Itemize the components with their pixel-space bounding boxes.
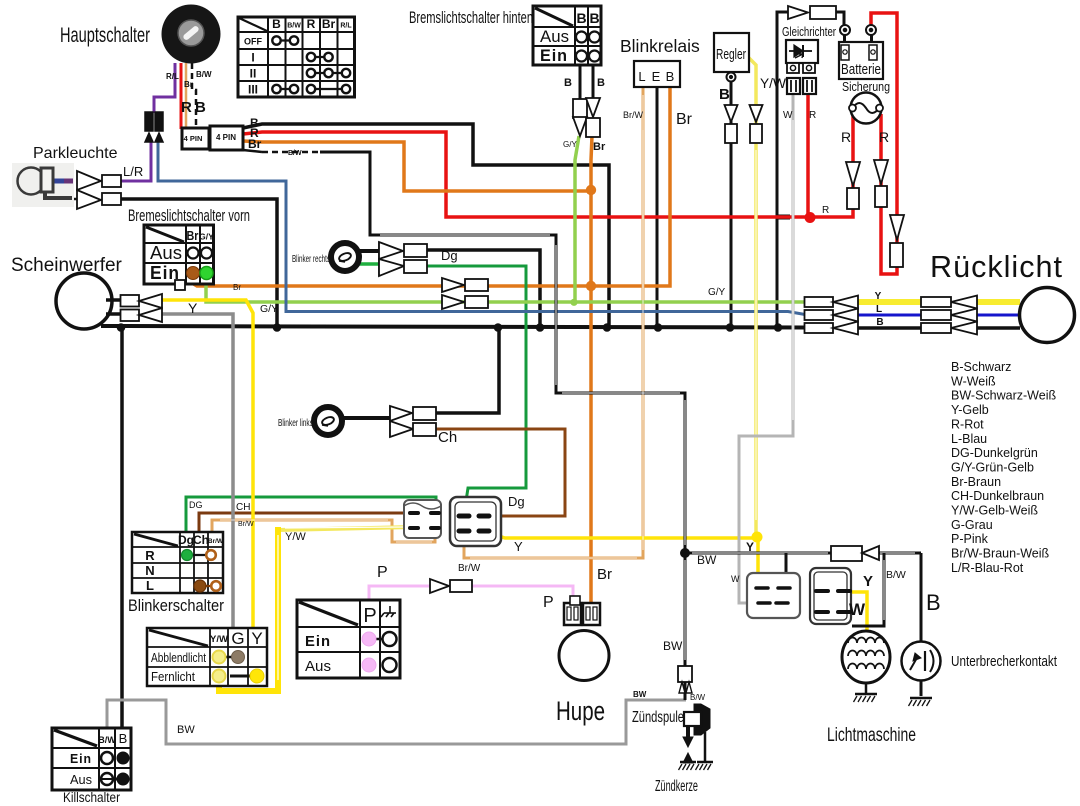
svg-text:Br-Braun: Br-Braun (951, 475, 1001, 489)
svg-text:B/W: B/W (690, 693, 706, 702)
svg-text:B/W: B/W (886, 569, 906, 581)
svg-text:B/W: B/W (288, 150, 302, 157)
svg-text:Y: Y (863, 573, 873, 590)
svg-text:R/L: R/L (340, 23, 352, 30)
svg-text:Y: Y (514, 539, 523, 554)
svg-text:L/R-Blau-Rot: L/R-Blau-Rot (951, 561, 1024, 575)
svg-text:R: R (145, 548, 155, 563)
svg-text:Y/W: Y/W (210, 634, 228, 645)
svg-text:Fernlicht: Fernlicht (151, 669, 195, 684)
svg-text:BW: BW (663, 639, 683, 653)
svg-text:G/Y-Grün-Gelb: G/Y-Grün-Gelb (951, 460, 1034, 474)
svg-text:Dg: Dg (508, 494, 525, 509)
svg-text:Dg: Dg (441, 248, 458, 263)
svg-text:Br: Br (322, 17, 336, 31)
svg-text:R: R (809, 110, 816, 121)
svg-text:Y: Y (188, 300, 198, 316)
svg-text:Br/W: Br/W (208, 538, 224, 545)
svg-text:CH-Dunkelbraun: CH-Dunkelbraun (951, 489, 1044, 503)
svg-text:Gleichrichter: Gleichrichter (782, 24, 836, 39)
svg-text:Br: Br (248, 137, 262, 151)
svg-text:Hupe: Hupe (556, 696, 605, 726)
svg-text:Blinkrelais: Blinkrelais (620, 36, 700, 56)
svg-text:L/R: L/R (123, 164, 143, 179)
svg-text:R: R (841, 129, 851, 145)
svg-text:B: B (719, 86, 730, 103)
svg-text:Br/W: Br/W (623, 110, 644, 120)
svg-text:Regler: Regler (716, 46, 746, 63)
svg-text:Batterie: Batterie (841, 61, 881, 78)
svg-text:B: B (589, 10, 599, 26)
svg-text:Br: Br (597, 566, 612, 583)
svg-text:R: R (822, 205, 829, 216)
svg-text:Aus: Aus (150, 243, 182, 263)
svg-text:III: III (248, 83, 258, 97)
svg-text:Bremeslichtschalter vorn: Bremeslichtschalter vorn (128, 207, 250, 225)
svg-text:4 PIN: 4 PIN (216, 133, 236, 142)
svg-text:Zündspule: Zündspule (632, 709, 684, 726)
svg-text:G/Y: G/Y (563, 140, 577, 149)
svg-text:Y: Y (251, 629, 262, 648)
svg-text:Br: Br (187, 228, 199, 243)
svg-text:L: L (876, 304, 882, 315)
svg-text:Zündkerze: Zündkerze (655, 778, 698, 795)
svg-text:Ch: Ch (193, 533, 209, 547)
svg-text:Y/W: Y/W (760, 75, 787, 91)
svg-text:B: B (666, 69, 675, 84)
svg-text:Blinker rechts: Blinker rechts (292, 254, 330, 265)
svg-text:W: W (731, 574, 740, 584)
svg-text:N: N (145, 563, 154, 578)
svg-text:Ch: Ch (438, 429, 457, 446)
svg-text:Br/W: Br/W (458, 563, 481, 574)
svg-text:L: L (638, 69, 645, 84)
svg-text:B/W: B/W (287, 23, 301, 30)
svg-text:Abblendlicht: Abblendlicht (151, 650, 206, 665)
svg-text:B: B (272, 17, 281, 31)
svg-text:OFF: OFF (244, 37, 262, 47)
svg-text:Blinker links: Blinker links (278, 418, 313, 429)
svg-text:Y: Y (746, 540, 754, 554)
svg-text:G-Grau: G-Grau (951, 518, 993, 532)
svg-text:Ein: Ein (70, 751, 92, 766)
svg-text:B: B (564, 77, 572, 89)
svg-text:W: W (849, 600, 866, 619)
svg-text:G/Y: G/Y (199, 232, 214, 242)
svg-text:G/Y: G/Y (260, 303, 278, 315)
svg-text:B: B (876, 317, 883, 328)
svg-text:DG-Dunkelgrün: DG-Dunkelgrün (951, 446, 1038, 460)
svg-text:Br: Br (233, 283, 241, 292)
svg-text:BW: BW (697, 553, 717, 567)
svg-text:Ein: Ein (150, 263, 180, 283)
svg-text:Hauptschalter: Hauptschalter (60, 24, 150, 47)
svg-text:Ein: Ein (540, 46, 568, 65)
svg-text:4 PIN: 4 PIN (184, 134, 203, 143)
svg-text:Aus: Aus (70, 772, 92, 787)
svg-text:B: B (119, 731, 128, 746)
svg-text:II: II (250, 67, 257, 81)
svg-text:G: G (231, 629, 244, 648)
svg-text:BW: BW (177, 724, 195, 736)
svg-text:Bremslichtschalter hinten: Bremslichtschalter hinten (409, 8, 533, 27)
svg-text:Y/W: Y/W (285, 531, 306, 543)
svg-text:W-Weiß: W-Weiß (951, 374, 996, 388)
svg-text:L: L (146, 578, 154, 593)
svg-text:Br: Br (184, 80, 193, 89)
svg-text:P-Pink: P-Pink (951, 532, 989, 546)
svg-text:Parkleuchte: Parkleuchte (33, 145, 118, 162)
svg-text:L-Blau: L-Blau (951, 432, 987, 446)
svg-text:Ein: Ein (305, 633, 331, 650)
svg-text:B/W: B/W (196, 70, 212, 79)
svg-text:Y/W-Gelb-Weiß: Y/W-Gelb-Weiß (951, 504, 1038, 518)
svg-text:DG: DG (189, 500, 203, 510)
svg-text:B: B (597, 77, 605, 89)
svg-text:W: W (783, 110, 793, 121)
svg-text:BW-Schwarz-Weiß: BW-Schwarz-Weiß (951, 389, 1056, 403)
svg-text:B/W: B/W (98, 735, 116, 745)
svg-text:P: P (363, 605, 376, 627)
svg-text:Aus: Aus (540, 27, 569, 46)
svg-text:E: E (652, 69, 661, 84)
svg-text:P: P (377, 564, 388, 581)
svg-text:Killschalter: Killschalter (63, 789, 120, 805)
svg-text:P: P (543, 594, 554, 611)
svg-text:G/Y: G/Y (708, 287, 726, 298)
svg-text:Br: Br (593, 141, 606, 153)
svg-text:Y-Gelb: Y-Gelb (951, 403, 989, 417)
svg-text:CH: CH (236, 502, 250, 513)
svg-text:Br/W-Braun-Weiß: Br/W-Braun-Weiß (951, 547, 1050, 561)
svg-text:R: R (879, 129, 889, 145)
svg-text:Br: Br (676, 111, 693, 128)
svg-text:Br/W: Br/W (238, 521, 254, 528)
svg-text:Blinkerschalter: Blinkerschalter (128, 596, 224, 615)
svg-text:I: I (251, 51, 254, 65)
svg-text:R-Rot: R-Rot (951, 417, 984, 431)
svg-text:Scheinwerfer: Scheinwerfer (11, 255, 123, 276)
svg-text:Y: Y (875, 291, 882, 302)
svg-text:Unterbrecherkontakt: Unterbrecherkontakt (951, 653, 1058, 670)
svg-text:B-Schwarz: B-Schwarz (951, 360, 1011, 374)
svg-text:Aus: Aus (305, 658, 331, 675)
svg-text:Dg: Dg (178, 533, 194, 547)
svg-text:Rücklicht: Rücklicht (930, 249, 1063, 284)
svg-text:R: R (181, 99, 192, 116)
svg-text:BW: BW (633, 690, 647, 699)
svg-text:R: R (307, 17, 316, 31)
svg-text:B: B (926, 590, 941, 615)
svg-text:B: B (195, 99, 206, 116)
svg-text:Lichtmaschine: Lichtmaschine (827, 725, 916, 746)
svg-text:R/L: R/L (166, 72, 179, 81)
svg-text:B: B (576, 10, 586, 26)
svg-text:Sicherung: Sicherung (842, 79, 890, 94)
